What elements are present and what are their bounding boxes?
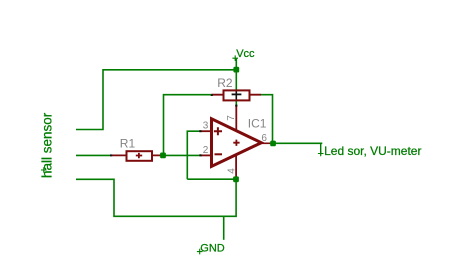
svg-text:Led sor, VU-meter: Led sor, VU-meter: [324, 144, 421, 158]
pin 6 output lead: [261, 142, 271, 144]
pin 7 lead: [235, 106, 237, 131]
svg-text:R2: R2: [217, 76, 233, 90]
junction ground node: [233, 176, 239, 182]
svg-text:GND: GND: [200, 242, 225, 254]
svg-text:6: 6: [261, 133, 267, 144]
pin 3 lead: [201, 130, 212, 132]
pin 4 lead: [235, 156, 237, 177]
node Led sor, VU-meter label: [318, 143, 422, 158]
wire hall middle: [76, 154, 111, 156]
resistor R2: [211, 90, 261, 100]
svg-text:Vcc: Vcc: [236, 48, 255, 60]
wire junction to pin2: [163, 154, 201, 156]
svg-text:R1: R1: [120, 137, 136, 151]
wire hall bottom to ground: [76, 179, 236, 216]
wire pin3 net to ground junction: [187, 178, 236, 180]
wire output: [270, 142, 322, 144]
node Vcc: [232, 48, 255, 69]
svg-text:3: 3: [203, 121, 209, 132]
wire R2 left to inverting node: [164, 95, 212, 156]
node hall sensor label: [39, 112, 54, 178]
svg-text:2: 2: [203, 145, 209, 156]
op-amp IC1: [212, 119, 262, 167]
wire R2 right to output node: [261, 95, 273, 144]
junction output node: [270, 141, 276, 147]
junction Vcc net: [233, 67, 239, 73]
pin 2 lead: [201, 154, 212, 156]
wire hall top to Vcc net: [76, 70, 236, 130]
wire pin3 net: [187, 131, 200, 179]
svg-text:hall sensor: hall sensor: [39, 112, 54, 178]
node GND: [197, 216, 225, 254]
svg-text:4: 4: [226, 168, 237, 174]
wire through R2 and below: [235, 91, 237, 101]
wire Vcc down to R2: [235, 70, 237, 91]
junction inverting node: [160, 153, 166, 159]
resistor R1: [110, 151, 162, 161]
svg-text:7: 7: [226, 115, 237, 121]
svg-text:IC1: IC1: [248, 116, 267, 130]
